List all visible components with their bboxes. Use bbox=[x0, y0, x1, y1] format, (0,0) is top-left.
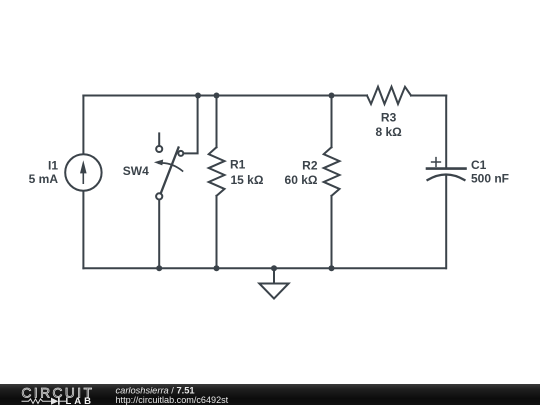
svg-text:http://circuitlab.com/c6492st: http://circuitlab.com/c6492st bbox=[116, 395, 229, 405]
svg-text:8 kΩ: 8 kΩ bbox=[375, 125, 402, 139]
svg-text:LAB: LAB bbox=[66, 396, 95, 405]
svg-text:60 kΩ: 60 kΩ bbox=[285, 173, 318, 187]
svg-text:R1: R1 bbox=[230, 157, 246, 171]
svg-text:R2: R2 bbox=[302, 159, 318, 173]
svg-text:R3: R3 bbox=[381, 111, 397, 125]
svg-text:15 kΩ: 15 kΩ bbox=[231, 173, 264, 187]
svg-text:5 mA: 5 mA bbox=[29, 172, 59, 186]
svg-text:SW4: SW4 bbox=[123, 164, 149, 178]
svg-text:carloshsierra / 7.51: carloshsierra / 7.51 bbox=[116, 386, 195, 396]
svg-text:500 nF: 500 nF bbox=[471, 172, 509, 186]
svg-text:C1: C1 bbox=[471, 158, 487, 172]
svg-text:I1: I1 bbox=[48, 159, 58, 173]
